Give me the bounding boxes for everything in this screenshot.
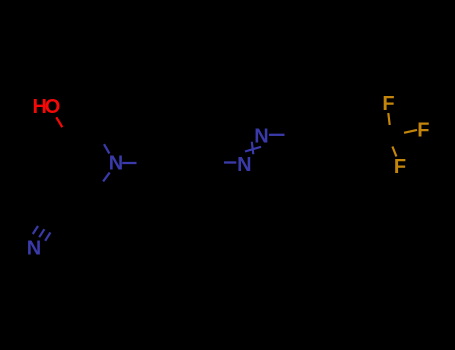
svg-text:F: F (394, 156, 406, 178)
hydroxyl label HO (33, 96, 61, 118)
triple bond C#N line 1 (33, 226, 38, 234)
N=N crossed double bond line b (245, 147, 261, 152)
svg-text:O: O (45, 96, 61, 118)
svg-text:N: N (109, 153, 123, 175)
svg-text:N: N (237, 154, 251, 176)
triple bond C#N line 2 (39, 229, 44, 237)
triple bond C#N line 3 (45, 232, 50, 240)
wire N-CH2 (cyanoethyl, N half) (103, 173, 110, 182)
wire N-CH2 (hydroxyethyl, N half) (104, 144, 109, 153)
N=N crossed double bond line a (252, 142, 254, 155)
wire C-F top (F half) (388, 113, 389, 125)
svg-text:N: N (254, 126, 268, 148)
svg-text:F: F (382, 93, 394, 115)
wire C-F bottom (F half) (392, 147, 396, 157)
wire C-F right (F half) (404, 130, 417, 133)
wire O-CH2 (O half, red) (56, 117, 62, 127)
svg-text:F: F (417, 119, 429, 141)
svg-text:N: N (27, 237, 41, 259)
wire N-phenyl (N half) (122, 162, 136, 164)
wire phenyl-N1 (N half) (224, 161, 236, 163)
wire N2-phenyl (N half) (269, 134, 285, 136)
